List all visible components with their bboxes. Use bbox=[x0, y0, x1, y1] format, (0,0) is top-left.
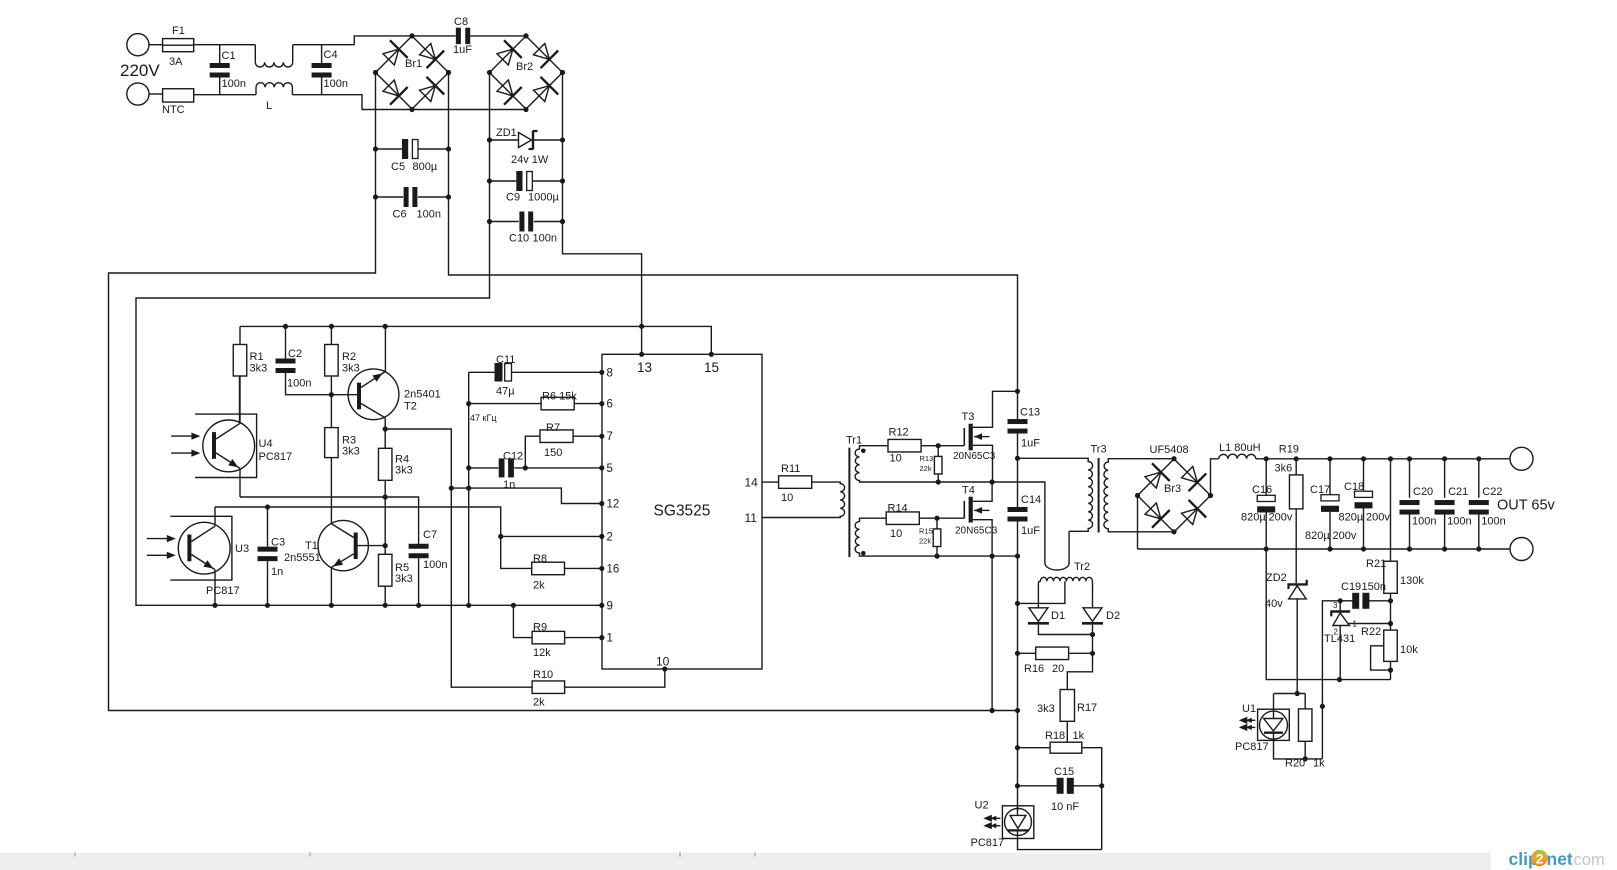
junction R12 R13 bbox=[936, 443, 941, 448]
phase dot Tr1 sec2 bbox=[861, 551, 866, 556]
svg-text:C5: C5 bbox=[391, 161, 405, 173]
svg-text:200v: 200v bbox=[1333, 530, 1357, 542]
label C9 value bbox=[528, 192, 559, 204]
label R21 value bbox=[1400, 575, 1424, 587]
svg-text:2n5401: 2n5401 bbox=[404, 389, 441, 401]
junction Br3 right bbox=[1208, 493, 1213, 498]
wire F1 to choke top bbox=[194, 44, 256, 46]
svg-text:100n: 100n bbox=[423, 559, 447, 571]
transformer Tr3 core bbox=[1098, 458, 1100, 533]
svg-text:6: 6 bbox=[607, 399, 613, 411]
junction T4 source bus2 bbox=[990, 554, 995, 559]
wire R22 wiper loop bbox=[1371, 646, 1391, 670]
junction pin9 bbox=[599, 603, 604, 608]
wire R20 bottom lead bbox=[1304, 741, 1306, 759]
wire HV minus rail big loop bbox=[109, 73, 1018, 711]
wire C14 top lead bbox=[1017, 458, 1019, 507]
wire C22 top lead bbox=[1478, 459, 1480, 498]
resistor R9 bbox=[532, 631, 565, 644]
junction T1 base node bbox=[383, 543, 388, 548]
label Br1 bbox=[405, 58, 422, 70]
label C21 bbox=[1448, 486, 1468, 498]
svg-text:13: 13 bbox=[637, 360, 652, 375]
svg-text:C16: C16 bbox=[1252, 484, 1272, 496]
fuse F1 bbox=[163, 39, 194, 52]
label Tr1 bbox=[846, 435, 862, 447]
label R21 bbox=[1366, 558, 1386, 570]
label R22 value bbox=[1400, 644, 1418, 656]
junction R13 bus bbox=[936, 479, 941, 484]
junction C3 rail bbox=[265, 603, 270, 608]
junction C14 bus2 bbox=[1015, 554, 1020, 559]
label C10 value bbox=[533, 233, 557, 245]
wire U4 emitter down bbox=[239, 468, 241, 497]
wire T2 emitter down bbox=[384, 418, 386, 429]
svg-text:Tr3: Tr3 bbox=[1091, 444, 1107, 456]
junction R16 D2 bbox=[1090, 651, 1095, 656]
svg-text:3: 3 bbox=[1333, 601, 1338, 610]
label R4 bbox=[395, 454, 409, 466]
svg-text:47 кГц: 47 кГц bbox=[470, 413, 496, 423]
svg-text:7: 7 bbox=[607, 431, 613, 443]
svg-text:UF5408: UF5408 bbox=[1150, 444, 1189, 456]
junction C18 plus bbox=[1361, 456, 1366, 461]
thermistor NTC bbox=[163, 89, 194, 102]
capacitor C22 bbox=[1469, 500, 1489, 515]
junction C7 rail bbox=[416, 603, 421, 608]
label R13 value bbox=[920, 464, 932, 473]
label C14 bbox=[1021, 494, 1041, 506]
label U1 bbox=[1242, 703, 1256, 715]
svg-text:L1 80uH: L1 80uH bbox=[1219, 442, 1261, 454]
wire primary minus rail bbox=[1017, 556, 1019, 811]
label T2 type bbox=[404, 389, 441, 401]
svg-text:R15: R15 bbox=[919, 527, 933, 536]
wire output plus rail bbox=[1256, 458, 1510, 460]
label C22 bbox=[1482, 486, 1502, 498]
svg-text:220V: 220V bbox=[120, 61, 160, 80]
svg-text:3A: 3A bbox=[169, 56, 183, 68]
label R16 bbox=[1024, 663, 1044, 675]
wire R9 right lead bbox=[565, 637, 602, 639]
wire R21 top lead bbox=[1390, 459, 1392, 561]
label R10 bbox=[533, 669, 553, 681]
capacitor C20 bbox=[1400, 500, 1420, 515]
pin label 8 bbox=[607, 367, 613, 379]
svg-text:R19: R19 bbox=[1279, 443, 1299, 455]
svg-text:SG3525: SG3525 bbox=[654, 503, 711, 520]
svg-text:47µ: 47µ bbox=[496, 386, 515, 398]
wire C19 right lead bbox=[1367, 600, 1390, 602]
svg-text:T4: T4 bbox=[962, 485, 975, 497]
svg-text:820µ: 820µ bbox=[1305, 530, 1330, 542]
junction C3 top bbox=[265, 504, 270, 509]
junction C19 TL431 bbox=[1338, 598, 1343, 603]
wire Tr3 sec top to Br3 bbox=[1113, 458, 1175, 460]
junction ZD2 U1 bbox=[1295, 691, 1300, 696]
capacitor C10 bbox=[519, 212, 533, 232]
wire R21 bottom lead bbox=[1390, 593, 1392, 630]
junction timing rail pin5 bbox=[466, 465, 471, 470]
capacitor C5 bbox=[402, 139, 418, 159]
pin label 7 bbox=[607, 431, 613, 443]
junction R2 top bbox=[329, 324, 334, 329]
wire R16 left lead bbox=[1018, 652, 1036, 654]
wire C6 right lead bbox=[418, 196, 449, 198]
svg-text:.com: .com bbox=[1569, 851, 1605, 869]
label R19 value bbox=[1275, 462, 1293, 474]
svg-text:R2: R2 bbox=[342, 351, 356, 363]
wire C19 left lead bbox=[1340, 600, 1353, 602]
wire Br1 bottom to Br2 bottom bbox=[412, 109, 526, 111]
label Br2 bbox=[516, 61, 533, 73]
svg-text:1uF: 1uF bbox=[453, 44, 472, 56]
pin label 5 bbox=[607, 463, 613, 475]
junction R20 bottom bbox=[1303, 756, 1308, 761]
label C8 value bbox=[453, 44, 472, 56]
label Br3 type bbox=[1150, 444, 1189, 456]
label R5 value bbox=[395, 573, 413, 585]
svg-text:C3: C3 bbox=[271, 537, 285, 549]
label C6 value bbox=[417, 209, 441, 221]
label C15 value bbox=[1051, 801, 1079, 813]
capacitor C11 bbox=[495, 363, 512, 382]
zener diode ZD2 bbox=[1288, 580, 1308, 599]
label T1 bbox=[305, 540, 318, 552]
wire ZD1 anode lead bbox=[490, 139, 519, 141]
wire R16 right lead bbox=[1069, 652, 1093, 654]
wire C14 bottom lead bbox=[1017, 522, 1019, 557]
junction pin2 node bbox=[498, 534, 503, 539]
wire R19 top lead bbox=[1295, 459, 1297, 475]
svg-text:24v 1W: 24v 1W bbox=[511, 154, 549, 166]
label C2 bbox=[288, 348, 302, 360]
junction R15 bus2 bbox=[934, 554, 939, 559]
wire ZD2 anode down bbox=[1296, 599, 1298, 694]
junction pin12 net rail bbox=[466, 486, 471, 491]
label 3A bbox=[169, 56, 183, 68]
pin label 13 bbox=[637, 360, 652, 375]
resistor R10 bbox=[532, 681, 565, 694]
resistor R6 bbox=[541, 397, 574, 410]
junction T3 source bus bbox=[990, 479, 995, 484]
wire T1 emitter down bbox=[330, 567, 332, 605]
svg-text:R10: R10 bbox=[533, 669, 553, 681]
light arrow U1 a bbox=[1239, 717, 1256, 724]
pin 10 SG3525 bbox=[662, 666, 667, 671]
wire T3 source bbox=[973, 445, 993, 482]
wire ZD1 cathode lead bbox=[534, 139, 563, 141]
junction gnd bus T4 bbox=[990, 708, 995, 713]
label R11 bbox=[781, 463, 800, 475]
svg-text:R16: R16 bbox=[1024, 663, 1044, 675]
wire R9 left lead bbox=[513, 605, 532, 637]
pin label 16 bbox=[607, 563, 620, 575]
wire T3 drain bbox=[973, 391, 1018, 427]
pin label 1 bbox=[607, 633, 613, 645]
svg-text:C19: C19 bbox=[1341, 581, 1361, 593]
svg-text:Br1: Br1 bbox=[405, 58, 422, 70]
wire C2 bottom lead bbox=[286, 373, 332, 395]
junction TL431 anode gnd bbox=[1337, 677, 1342, 682]
wire C16 top lead bbox=[1265, 459, 1267, 496]
svg-text:C4: C4 bbox=[324, 49, 338, 61]
label C20 value bbox=[1412, 516, 1436, 528]
junction C17 plus bbox=[1327, 456, 1332, 461]
wire C11 right lead bbox=[512, 371, 602, 373]
capacitor C12 bbox=[499, 458, 514, 477]
svg-text:D2: D2 bbox=[1106, 610, 1120, 622]
wire C18 top lead bbox=[1363, 459, 1365, 491]
label U2 type bbox=[971, 837, 1005, 849]
svg-text:TL431: TL431 bbox=[1324, 633, 1355, 645]
wire T1 base bbox=[358, 545, 386, 547]
label ZD1 value bbox=[511, 154, 549, 166]
pin 7 SG3525 bbox=[599, 434, 604, 439]
svg-text:40v: 40v bbox=[1265, 598, 1283, 610]
wire C5 right lead bbox=[418, 148, 449, 150]
resistor R14 bbox=[886, 512, 919, 525]
wire C19 to opto branch bbox=[1322, 601, 1340, 759]
junction C20 plus bbox=[1407, 456, 1412, 461]
svg-text:R8: R8 bbox=[533, 553, 547, 565]
wire R16 to R17 bbox=[1067, 653, 1092, 689]
wire D2 anode lead bbox=[1092, 586, 1094, 608]
capacitor C14 bbox=[1008, 507, 1028, 522]
wire C13 bottom lead bbox=[1017, 434, 1019, 459]
label TL431 pin3 bbox=[1333, 601, 1338, 610]
wire AC top to Br1 bbox=[354, 36, 412, 45]
wire U1 cathode bbox=[1274, 733, 1323, 759]
label L bbox=[266, 100, 272, 112]
wire R4 to T1 base node bbox=[384, 497, 386, 554]
junction C18 minus bbox=[1361, 546, 1366, 551]
label C20 bbox=[1413, 486, 1433, 498]
label T4 type bbox=[955, 526, 998, 537]
transformer Tr2 primary loop bbox=[1045, 531, 1069, 570]
junction C10 left bbox=[487, 219, 492, 224]
wire C21 top lead bbox=[1444, 459, 1446, 498]
label T2 bbox=[404, 401, 417, 413]
wire C20 top lead bbox=[1409, 459, 1411, 498]
svg-text:C14: C14 bbox=[1021, 494, 1041, 506]
wire output minus rail bbox=[1138, 548, 1511, 550]
junction Br3 bottom bbox=[1171, 529, 1176, 534]
label R3 value bbox=[342, 446, 360, 458]
optocoupler U2 bbox=[1002, 806, 1033, 839]
wire T2 node to pin12 net bbox=[385, 429, 451, 488]
label C15 bbox=[1054, 766, 1074, 778]
resistor R2 bbox=[325, 345, 339, 377]
wire C4 top lead bbox=[321, 45, 323, 63]
diode D1 bbox=[1028, 608, 1049, 624]
junction Br2 right bbox=[560, 70, 565, 75]
svg-text:R1: R1 bbox=[250, 351, 264, 363]
junction timing rail pin6 bbox=[466, 401, 471, 406]
wire U1 anode bbox=[1273, 694, 1275, 719]
junction C15 right bbox=[1099, 783, 1104, 788]
pin 9 SG3525 bbox=[599, 603, 604, 608]
svg-text:130k: 130k bbox=[1400, 575, 1424, 587]
label Tr2 bbox=[1074, 561, 1090, 573]
junction D1 D2 cathodes bbox=[1090, 632, 1095, 637]
wire R14 to T4 gate bbox=[919, 517, 964, 519]
svg-text:100n: 100n bbox=[533, 233, 557, 245]
label C16 value b bbox=[1269, 512, 1293, 524]
wire R7 left lead bbox=[525, 436, 540, 468]
label C3 value bbox=[271, 566, 283, 578]
svg-text:1n: 1n bbox=[503, 479, 515, 491]
transformer Tr3 secondary bbox=[1104, 459, 1113, 532]
svg-text:C10: C10 bbox=[509, 233, 529, 245]
transistor T1 bbox=[318, 520, 368, 570]
wire R22 bottom lead bbox=[1390, 661, 1392, 679]
label D2 bbox=[1106, 610, 1120, 622]
junction T1 emitter rail bbox=[329, 603, 334, 608]
svg-text:100n: 100n bbox=[222, 78, 246, 90]
resistor R18 bbox=[1050, 742, 1082, 753]
label T1 type bbox=[284, 552, 321, 564]
wire C10 left lead bbox=[490, 221, 519, 223]
wire C1 top lead bbox=[219, 45, 221, 63]
capacitor C15 bbox=[1057, 778, 1074, 794]
inductor L1 bbox=[1219, 454, 1256, 459]
svg-text:U4: U4 bbox=[259, 438, 273, 450]
junction tap rail bbox=[1015, 601, 1020, 606]
pin 1 SG3525 bbox=[599, 635, 604, 640]
label C4 value bbox=[324, 78, 348, 90]
svg-text:20N65C3: 20N65C3 bbox=[953, 451, 996, 462]
junction TL431 ref bbox=[1388, 621, 1393, 626]
wire T4 source to gnd bus bbox=[991, 556, 993, 710]
svg-text:U3: U3 bbox=[235, 543, 249, 555]
svg-text:1uF: 1uF bbox=[1021, 438, 1040, 450]
resistor R4 bbox=[378, 448, 392, 480]
wire pin14 lead bbox=[762, 481, 779, 483]
transformer Tr1 primary bbox=[762, 482, 845, 517]
svg-text:R18: R18 bbox=[1045, 730, 1065, 742]
wire C6 left lead bbox=[376, 196, 404, 198]
svg-text:2: 2 bbox=[607, 531, 613, 543]
wire R20 top lead bbox=[1304, 694, 1306, 709]
wire C17 top lead bbox=[1329, 459, 1331, 495]
junction R16 rail bbox=[1015, 651, 1020, 656]
wire D2 cathode lead bbox=[1092, 625, 1094, 654]
svg-text:Br2: Br2 bbox=[516, 61, 533, 73]
junction Br1 right bbox=[446, 70, 451, 75]
svg-text:9: 9 bbox=[607, 600, 613, 612]
capacitor C7 bbox=[409, 544, 429, 559]
junction aux rail pin13 bbox=[639, 324, 644, 329]
wire choke to C4 bottom bbox=[292, 95, 412, 110]
svg-text:10: 10 bbox=[890, 453, 902, 465]
svg-text:2: 2 bbox=[1536, 851, 1544, 867]
junction Ct rail bbox=[466, 603, 471, 608]
svg-text:10: 10 bbox=[890, 528, 902, 540]
svg-text:C11: C11 bbox=[496, 354, 515, 366]
svg-text:10 nF: 10 nF bbox=[1051, 801, 1079, 813]
label Tr3 bbox=[1091, 444, 1107, 456]
svg-text:200v: 200v bbox=[1366, 512, 1390, 524]
svg-text:L: L bbox=[266, 100, 272, 112]
wire R15 bottom lead bbox=[936, 547, 938, 557]
svg-text:3k3: 3k3 bbox=[395, 573, 413, 585]
phase dot Tr1 sec1 bbox=[861, 449, 866, 454]
label R17 bbox=[1077, 702, 1097, 714]
svg-text:OUT 65v: OUT 65v bbox=[1497, 498, 1556, 514]
wire NTC to choke bottom bbox=[194, 94, 256, 97]
junction Br2 top bbox=[523, 33, 528, 38]
wire T4 source bbox=[973, 520, 992, 556]
wire Tr1 sec1 bottom bus bbox=[862, 482, 1045, 563]
wire Br3 minus down bbox=[1137, 496, 1139, 550]
svg-text:PC817: PC817 bbox=[206, 585, 240, 597]
label C5 bbox=[391, 161, 405, 173]
wire C1 bottom lead bbox=[219, 78, 221, 95]
wire C12 right lead bbox=[514, 467, 602, 469]
wire R1 bottom lead bbox=[239, 376, 241, 424]
capacitor C13 bbox=[1008, 419, 1028, 434]
light arrow U3 b bbox=[147, 552, 176, 559]
svg-text:PC817: PC817 bbox=[971, 837, 1005, 849]
resistor R12 bbox=[888, 439, 921, 452]
resistor R5 bbox=[378, 554, 392, 586]
svg-text:22k: 22k bbox=[920, 464, 932, 473]
wire C10 right lead bbox=[534, 221, 563, 223]
pin label 11 bbox=[745, 511, 758, 525]
wire R3 bottom lead bbox=[330, 458, 332, 524]
wire C22 bottom lead bbox=[1478, 512, 1480, 549]
wire R17 bottom lead bbox=[1066, 721, 1068, 742]
label R18 bbox=[1045, 730, 1065, 742]
wire TL431 cathode bbox=[1339, 601, 1341, 612]
wire R6 left lead bbox=[469, 403, 541, 405]
transformer Tr3 primary bbox=[1069, 458, 1093, 531]
svg-text:3k3: 3k3 bbox=[250, 363, 268, 375]
label C7 value bbox=[423, 559, 447, 571]
svg-text:1k: 1k bbox=[1313, 758, 1325, 770]
junction T2 top bbox=[383, 324, 388, 329]
label U1 type bbox=[1235, 741, 1269, 753]
junction R21 plus bbox=[1388, 456, 1393, 461]
svg-text:ZD1: ZD1 bbox=[496, 127, 517, 139]
wire C9 right lead bbox=[532, 180, 562, 182]
svg-text:1n: 1n bbox=[271, 566, 283, 578]
label Br3 bbox=[1164, 483, 1181, 495]
junction T2 emitter node bbox=[383, 426, 388, 431]
svg-text:100n: 100n bbox=[324, 78, 348, 90]
terminal 220V line bbox=[127, 34, 149, 56]
light arrow U4 b bbox=[171, 450, 200, 457]
inductor L bottom winding bbox=[256, 83, 292, 95]
junction R19 plus bbox=[1294, 456, 1299, 461]
junction C21 plus bbox=[1442, 456, 1447, 461]
wire R6 right lead bbox=[574, 403, 602, 405]
wire Tr3 sec bottom to Br3 bbox=[1113, 531, 1175, 533]
resistor R8 bbox=[532, 562, 565, 575]
wire control top rail bbox=[240, 326, 711, 354]
svg-text:100n: 100n bbox=[1481, 516, 1505, 528]
label C18 value a bbox=[1339, 512, 1364, 524]
zener diode ZD1 bbox=[519, 131, 538, 150]
svg-text:16: 16 bbox=[607, 563, 620, 575]
svg-text:T2: T2 bbox=[404, 401, 417, 413]
wire R15 top lead bbox=[936, 518, 938, 529]
wire R10 right lead bbox=[565, 669, 665, 687]
wire R13 top lead bbox=[937, 446, 939, 457]
svg-text:T3: T3 bbox=[962, 411, 975, 423]
svg-text:3k3: 3k3 bbox=[342, 446, 360, 458]
